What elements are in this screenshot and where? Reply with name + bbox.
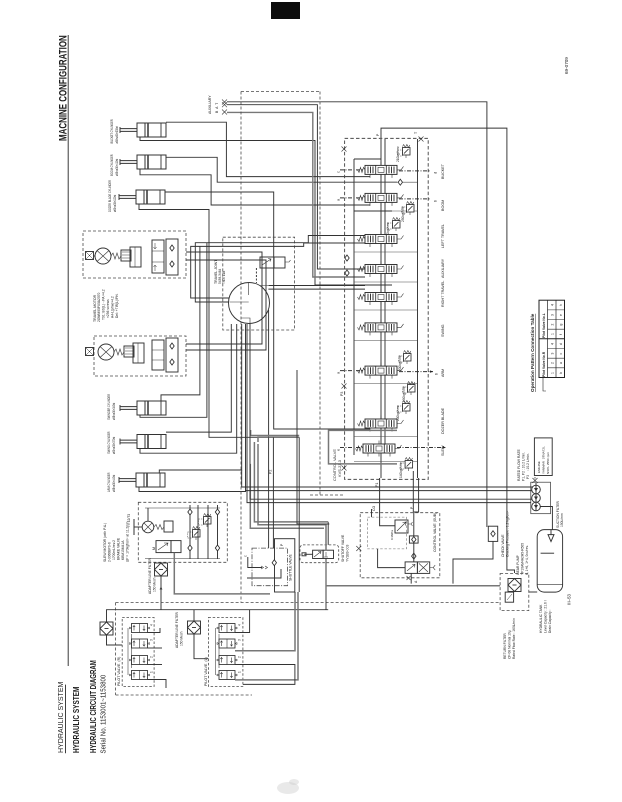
svg-text:DOZER BLADE CYLINDER: DOZER BLADE CYLINDER (108, 179, 113, 212)
svg-text:AUXILIARY: AUXILIARY (208, 95, 212, 114)
pilot circuit dashed enclosure left (115, 603, 117, 696)
hydraulic tank (537, 530, 562, 593)
svg-text:B A T: B A T (215, 103, 219, 113)
boom cylinder (120, 155, 166, 169)
check valve sub (409, 536, 418, 543)
svg-text:a: a (336, 371, 341, 374)
svg-text:KBM15M41A: KBM15M41A (121, 540, 125, 560)
svg-text:HYDRAULIC TANK: HYDRAULIC TANK (539, 604, 543, 633)
slew motor (142, 521, 154, 533)
header rule (67, 35, 69, 666)
node T port X (419, 137, 424, 142)
svg-text:ø60×ø35×370st: ø60×ø35×370st (112, 437, 117, 454)
node X mark sub bottom (407, 576, 411, 580)
relief valve boom port 250kgf (402, 202, 415, 216)
wire cyl4 rod pipe (140, 243, 207, 418)
travel motor R counterbalance valve (152, 240, 164, 273)
wire slew feed corner b (258, 444, 326, 550)
svg-text:SHUTTLE VALVE: SHUTTLE VALVE (289, 553, 293, 581)
wire slew feed corner c (250, 464, 324, 528)
pilot valve L section 1 (217, 624, 237, 633)
wire pilot dashed boundary top (241, 91, 320, 93)
solenoid valve sub (405, 562, 417, 574)
svg-text:P1, P2 : 10.2 L/min.: P1, P2 : 10.2 L/min. (522, 452, 526, 481)
svg-text:ø58×ø30×335st: ø58×ø30×335st (115, 126, 120, 143)
svg-text:4: 4 (238, 624, 242, 626)
relief valve dozer 170kgf (398, 401, 411, 415)
wire right travel supply b (268, 288, 365, 290)
spool ARM (358, 363, 404, 379)
pilot valve R section 2 (130, 639, 150, 648)
wire left travel supply a (195, 236, 365, 303)
wire joint drop right (268, 310, 270, 437)
svg-text:200kgf/cm²: 200kgf/cm² (398, 355, 402, 371)
wire boom lower port (354, 210, 392, 212)
wire pilot dashed boundary right (319, 92, 321, 496)
wire cyl5 head pipe (166, 324, 231, 432)
svg-text:150 Mesh: 150 Mesh (180, 631, 184, 646)
wire P2 riser (268, 437, 270, 548)
node P2 X bottom left (342, 466, 347, 471)
node diamond sub (412, 553, 416, 559)
svg-text:2GWM95P80A2070: 2GWM95P80A2070 (97, 293, 101, 322)
svg-text:e: e (336, 448, 341, 451)
wire solenoid drop dashed (255, 268, 257, 283)
spool LEFT TRAVEL (358, 231, 404, 247)
node check diamond bucket feed (398, 179, 402, 185)
svg-text:4: 4 (551, 304, 555, 306)
svg-text:c: c (244, 555, 248, 557)
travel motor L tag box (86, 348, 94, 356)
slew brake valve (156, 541, 171, 553)
svg-text:MACNINE CONFIGURATION: MACNINE CONFIGURATION (57, 35, 68, 141)
pilot enclosure dashed rect (241, 92, 344, 603)
wire sub A drop (410, 573, 412, 583)
pilot valve R section 4 (130, 671, 150, 680)
bucket cylinder (120, 123, 166, 137)
wire right return rail (417, 139, 419, 478)
wire cyl6 head pipe (159, 324, 241, 473)
travel motor L brake piston (133, 343, 144, 363)
svg-text:AUXILIARY: AUXILIARY (441, 258, 445, 278)
pilot valve L section 3 (217, 656, 237, 665)
wire bucket head pipe (166, 122, 370, 176)
wire return line gray (326, 585, 500, 587)
svg-text:HYDRAULIC SYSTEM: HYDRAULIC SYSTEM (56, 682, 65, 753)
wire left travel supply b (191, 243, 365, 298)
slew motor dashed block (138, 502, 227, 562)
svg-text:ø60×ø35×120st: ø60×ø35×120st (113, 195, 118, 212)
svg-text:Pilot Valve No.R: Pilot Valve No.R (542, 351, 546, 377)
return filter diamond (508, 579, 521, 592)
node P3 X (342, 384, 347, 389)
wire slew block top bus (145, 507, 220, 509)
wire sub loop left (378, 549, 406, 568)
wire boom head pipe (166, 157, 397, 182)
pilot valve R section 1 (130, 624, 150, 633)
table cell lines (548, 310, 565, 368)
wire shutoff feed top (327, 522, 329, 545)
svg-text:YANMAR 3TNA72L: YANMAR 3TNA72L (542, 446, 546, 474)
wire pump suction (540, 507, 552, 531)
wire slew gray bus lower (258, 437, 299, 442)
svg-text:Operation Pattern Connection T: Operation Pattern Connection Table (530, 313, 535, 392)
svg-text:ADAPTER LINE FILTER: ADAPTER LINE FILTER (175, 612, 179, 648)
svg-text:b: b (559, 372, 563, 374)
spool SWING (358, 319, 404, 335)
scan registration black rectangle (271, 2, 300, 19)
gear pump P3 (532, 502, 541, 511)
svg-text:2: 2 (551, 324, 555, 326)
node X mark sub left (356, 546, 361, 551)
svg-text:h: h (559, 304, 563, 306)
wire dozer head pipe (165, 192, 370, 429)
svg-text:Cracking Pressure : 1.2 kgf/cm: Cracking Pressure : 1.2 kgf/cm² (506, 510, 510, 557)
shutoff valve body (313, 550, 324, 558)
wire bucket rod pipe (140, 137, 392, 285)
return filter bypass (505, 592, 513, 602)
svg-text:1: 1 (238, 671, 242, 673)
wire arm pilot dash-dot (340, 370, 363, 372)
arm cylinder (119, 473, 165, 487)
svg-text:ΔP = 170kgf/cm² at 11.2min.: ΔP = 170kgf/cm² at 11.2min. (126, 521, 130, 562)
travel motor R spring valve (111, 253, 121, 259)
tank oil level line (541, 552, 555, 554)
svg-text:250kgf/cm²: 250kgf/cm² (401, 206, 405, 222)
swing cylinder (stabilizer) (120, 401, 166, 415)
wire bank internal passages (354, 182, 418, 461)
wire boom pilot dash-dot (340, 197, 363, 199)
svg-text:SWING: SWING (441, 324, 445, 337)
wire pilot R outputs (148, 628, 161, 633)
svg-text:a: a (559, 362, 563, 364)
svg-text:BUCKET: BUCKET (441, 163, 445, 179)
relief valve slew 140kgf (400, 458, 413, 472)
wire pump bus 4 (247, 324, 531, 503)
wire supply gallery (380, 139, 382, 478)
svg-text:P: P (280, 543, 284, 546)
wire pilot L out 2 gray (235, 592, 295, 651)
travel motor L counterbalance valve (152, 340, 164, 370)
svg-text:0.3MPa: 0.3MPa (390, 530, 394, 540)
svg-text:6, 1+6, 1+4, 0cc/rev.: 6, 1+6, 1+4, 0cc/rev. (525, 545, 529, 575)
wire dozer rod pipe (139, 204, 258, 437)
svg-text:BUCKET CYLINDER: BUCKET CYLINDER (110, 119, 115, 144)
svg-text:b: b (434, 372, 439, 375)
wire pilot L port4 feed (235, 610, 250, 633)
wire pump bus 2 (246, 490, 534, 493)
pilot enclosure dashed bottom (116, 694, 252, 696)
wire pilot dashed stub (310, 494, 344, 496)
pressure reducing valve sub (395, 520, 408, 533)
svg-text:P: P (376, 133, 380, 136)
op-amp n/a : spool BUCKET (358, 162, 404, 178)
svg-text:f: f (559, 334, 563, 335)
svg-text:Del: +TIR(L)/PH.: Del: +TIR(L)/PH. (115, 293, 119, 318)
gear pump casing (531, 482, 551, 514)
pilot valve L section 4 (217, 671, 237, 680)
travel motor R brake piston (130, 247, 141, 267)
svg-text:CONTROL VALVE (SUB): CONTROL VALVE (SUB) (433, 513, 437, 552)
wire pilot R internal rails (127, 628, 129, 675)
svg-text:YP10AM4A2H5-R505: YP10AM4A2H5-R505 (521, 543, 525, 575)
return filter dashed box (500, 574, 529, 611)
spool AUXILIARY (358, 261, 404, 277)
svg-text:ADAPTER LINE FILTER: ADAPTER LINE FILTER (148, 558, 152, 594)
sub inner dashed box (368, 517, 407, 549)
table frame (539, 300, 565, 377)
svg-text:1: 1 (551, 333, 555, 335)
spool DOZER BLADE (358, 416, 404, 432)
travel motor L block dashed (94, 336, 186, 376)
svg-text:3: 3 (551, 314, 555, 316)
wire pilot L out 3 (235, 665, 295, 685)
travel motor R tag box (86, 252, 94, 260)
pilot valve R section 3 (130, 656, 150, 665)
svg-text:ENGINE: ENGINE (537, 461, 541, 473)
svg-text:KVS-21-3: KVS-21-3 (337, 460, 342, 477)
shutoff valve dashed box (300, 545, 339, 563)
node shuttle check (272, 560, 276, 566)
node check diamond aux (345, 255, 349, 261)
svg-text:M: M (152, 547, 156, 550)
shutoff valve lever (304, 553, 312, 555)
solenoid valve (2WD/4WD) (260, 257, 274, 268)
wire pump bus 1 (242, 470, 533, 487)
wire cyl5 rod pipe (140, 324, 237, 453)
adapter line filter (slew) (155, 563, 168, 576)
slew brake spring (154, 525, 164, 530)
wire pump shaft (535, 483, 537, 511)
svg-text:3: 3 (150, 639, 154, 641)
svg-text:e: e (559, 314, 563, 316)
svg-text:a: a (336, 198, 341, 201)
scan smudge bottom center (277, 782, 299, 794)
travel joint dashed box (223, 237, 295, 330)
relief valve arm 190kgf (403, 382, 416, 396)
wire right travel supply a (269, 285, 365, 287)
svg-text:Level Capacity : 21.6 l: Level Capacity : 21.6 l (544, 600, 548, 633)
wire shuttle down stub (247, 569, 281, 578)
wire cyl4 head pipe (161, 246, 200, 401)
svg-text:ø58×ø30×443st: ø58×ø30×443st (112, 475, 117, 492)
wire slew drain gray (174, 553, 270, 594)
svg-text:3: 3 (551, 353, 555, 355)
svg-text:NSPL 2550 rpm: NSPL 2550 rpm (546, 452, 550, 474)
travel motor L spring valve (114, 349, 124, 355)
wire pilot L internal rails (215, 628, 217, 675)
wire bucket pilot dash-dot (340, 169, 363, 171)
wire slew pilot dash-dot (340, 447, 361, 449)
spool RIGHT TRAVEL (358, 289, 404, 305)
svg-text:GEAR PUMP: GEAR PUMP (516, 554, 520, 575)
svg-text:Rated Flow Rate : 160L/min: Rated Flow Rate : 160L/min (512, 618, 516, 659)
wire pump bus 3 (250, 324, 533, 499)
svg-text:Serial No. 1153001~1153800: Serial No. 1153001~1153800 (100, 674, 108, 753)
svg-text:HYDRAULIC SYSTEM: HYDRAULIC SYSTEM (72, 687, 81, 753)
svg-text:c: c (336, 171, 341, 173)
svg-text:SLEW MOTOR (with P.&.): SLEW MOTOR (with P.&.) (103, 523, 107, 562)
svg-text:HYDRAULIC CIRCUIT DIAGRAM: HYDRAULIC CIRCUIT DIAGRAM (90, 660, 98, 753)
wire slew gallery lines (189, 505, 191, 559)
svg-text:SWING CYLINDER: SWING CYLINDER (107, 431, 112, 454)
footer underline (65, 685, 67, 754)
wire boom rod pipe (140, 169, 370, 205)
swing cylinder 2 (120, 435, 166, 449)
travel motor R block dashed (83, 231, 186, 278)
wire shuttle riser 2 (272, 437, 274, 548)
svg-text:BRAKE VALVE: BRAKE VALVE (117, 537, 121, 560)
svg-text:CO: CO (372, 506, 376, 511)
wire cyl6 rod pipe (139, 324, 246, 492)
svg-text:PILOT VALVE (R): PILOT VALVE (R) (117, 657, 121, 686)
main relief valve 210kgf (398, 145, 411, 159)
spool SLEW (356, 441, 402, 457)
wire pilot L out 1 gray (235, 592, 298, 680)
wire aux B line to check valve drop (227, 102, 487, 527)
engine box (534, 438, 552, 476)
svg-text:T91: BS(L)→PA ×4.2: T91: BS(L)→PA ×4.2 (102, 289, 106, 320)
table callout tick (543, 378, 546, 392)
wire slew filter drop (160, 561, 162, 564)
svg-text:A4-L(phw)×4.2: A4-L(phw)×4.2 (111, 296, 115, 318)
shuttle valve dash-dot box (252, 548, 288, 586)
svg-text:b: b (433, 199, 438, 202)
svg-text:1700mL/rev.2: 1700mL/rev.2 (112, 540, 116, 560)
svg-text:P1: P1 (375, 483, 379, 487)
svg-text:III–53: III–53 (567, 593, 572, 605)
travel motor L (98, 344, 114, 360)
gear pump P2 (532, 494, 541, 503)
svg-text:c: c (559, 353, 563, 355)
svg-text:ARM CYLINDER: ARM CYLINDER (107, 472, 112, 492)
node aux port X marks (222, 100, 227, 115)
wire left feed rail (354, 158, 381, 160)
wire filter L drop (194, 634, 208, 659)
svg-text:Drain Capacity :: Drain Capacity : (548, 609, 552, 633)
adapter line filter (pilot L) (188, 621, 201, 634)
svg-text:Pilot Valve No.L: Pilot Valve No.L (542, 313, 546, 338)
wire return to tank (529, 591, 537, 593)
slew relief 2 (199, 514, 212, 528)
wire bank right rail drop (414, 478, 419, 512)
svg-text:3: 3 (238, 639, 242, 641)
table number cells (551, 304, 564, 374)
slew bypass gray loop (251, 430, 397, 464)
travel motor L check block (166, 338, 178, 372)
wire P sub feed (412, 471, 414, 512)
svg-text:ARM: ARM (441, 369, 445, 377)
travel joint rotary circle (229, 283, 270, 324)
wire pilot dashed boundary left (240, 92, 242, 603)
wire tank return top line (381, 128, 515, 573)
svg-text:2: 2 (238, 656, 242, 658)
svg-text:LEFT TRAVEL: LEFT TRAVEL (441, 224, 445, 248)
svg-text:BOOM CYLINDER: BOOM CYLINDER (110, 154, 115, 176)
wire P1 drop (380, 478, 395, 526)
svg-text:P3 : 10.2 L/min.: P3 : 10.2 L/min. (526, 453, 530, 479)
svg-text:1: 1 (551, 372, 555, 374)
wire motor R to joint riser b (186, 260, 266, 350)
svg-text:2-3060BPS-6: 2-3060BPS-6 (108, 542, 112, 562)
relief valve swing 210kgf (399, 351, 412, 365)
svg-text:RATED FLOW RATE: RATED FLOW RATE (517, 449, 521, 481)
slew relief 1 (188, 527, 201, 541)
svg-text:BOOM: BOOM (441, 200, 445, 211)
svg-text:TNJT11B: TNJT11B (222, 271, 226, 284)
wire filter R drop (107, 635, 123, 645)
wire pilot supply line (107, 610, 329, 622)
control valve sub dashed block (360, 513, 440, 578)
svg-text:1: 1 (150, 671, 154, 673)
travel motor R check block (166, 239, 178, 275)
svg-text:SWINGER CYLINDER: SWINGER CYLINDER (107, 393, 112, 420)
svg-text:CHECK VALVE: CHECK VALVE (501, 534, 505, 557)
wire shutoff feed from arm (297, 370, 329, 524)
svg-text:190kgf/cm²: 190kgf/cm² (402, 386, 406, 402)
pilot circuit dashed enclosure top (116, 602, 500, 604)
svg-text:69-0709: 69-0709 (564, 57, 569, 74)
tank strainer triangle (548, 535, 554, 542)
svg-text:2: 2 (551, 362, 555, 364)
svg-text:ø58×ø30×343st: ø58×ø30×343st (112, 403, 117, 420)
wire slew feed corner a (254, 442, 328, 522)
travel motor R (95, 248, 111, 264)
svg-text:P2: P2 (269, 470, 273, 474)
wire slew loop (329, 430, 398, 464)
engine coupling X (533, 478, 538, 483)
wire bus drops (298, 437, 300, 592)
wire aux A line (227, 105, 365, 269)
travel joint internal passages (230, 283, 269, 324)
svg-text:RIGHT TRAVEL: RIGHT TRAVEL (441, 281, 445, 307)
dozer blade cylinder (119, 190, 165, 204)
svg-text:×256 screws: ×256 screws (106, 299, 110, 318)
svg-text:SHUTOFF VALVE: SHUTOFF VALVE (341, 534, 345, 562)
wire sub P line (413, 512, 415, 536)
svg-text:d: d (559, 343, 563, 345)
svg-text:P3: P3 (340, 392, 344, 396)
svg-text:140kgf/cm²: 140kgf/cm² (399, 462, 403, 478)
wire filter L feed (193, 610, 195, 621)
svg-text:ø55×ø30×410st: ø55×ø30×410st (115, 159, 120, 176)
svg-text:2: 2 (150, 656, 154, 658)
gear pump P1 (532, 485, 541, 494)
svg-text:210kgf/cm²: 210kgf/cm² (396, 146, 400, 162)
wire motor R to joint riser a (186, 252, 262, 344)
svg-text:150 Mesh: 150 Mesh (153, 577, 157, 592)
check valve (return) (488, 526, 497, 541)
wire slew gray bus upper (251, 430, 300, 436)
svg-text:T: T (414, 131, 418, 134)
svg-text:g: g (559, 324, 563, 326)
pilot valve L section 2 (217, 639, 237, 648)
node P port X left (342, 147, 347, 152)
pilot valve L dashed block (208, 618, 243, 687)
shuttle valve body (275, 539, 295, 592)
svg-text:A: A (414, 580, 418, 583)
svg-text:4: 4 (551, 343, 555, 345)
wire check valve drop (453, 541, 493, 583)
wire shuttle c branch (248, 557, 262, 568)
svg-text:4: 4 (150, 624, 154, 626)
svg-text:d: d (433, 172, 438, 174)
svg-text:SLEW: SLEW (441, 445, 445, 456)
svg-text:RETURN FILTER: RETURN FILTER (503, 633, 507, 659)
svg-text:DOZER BLADE: DOZER BLADE (441, 407, 445, 434)
spool BOOM (358, 190, 404, 206)
wire aux T line (227, 112, 365, 277)
